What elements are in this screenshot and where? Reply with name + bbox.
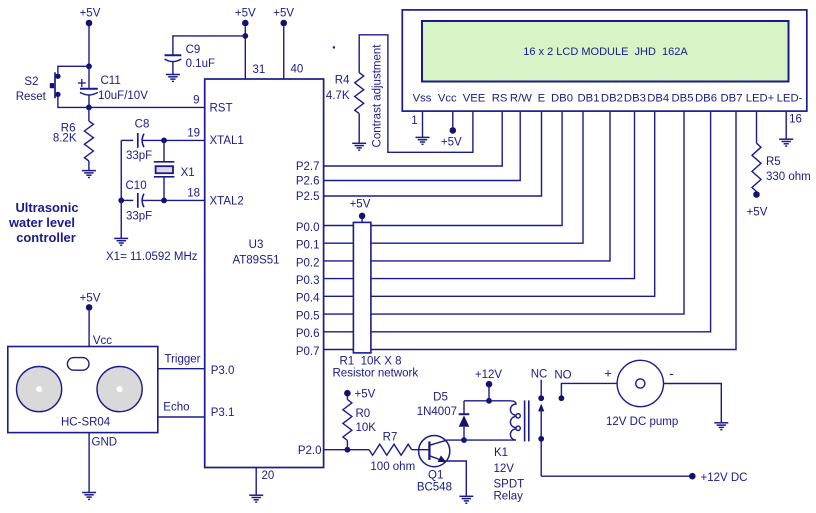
resistor R0: [343, 396, 376, 449]
svg-text:P2.7: P2.7: [296, 161, 320, 173]
svg-text:RST: RST: [210, 102, 233, 114]
svg-text:+5V: +5V: [80, 8, 101, 20]
svg-text:X1: X1: [181, 167, 195, 179]
svg-text:DB1: DB1: [578, 93, 600, 105]
node NO: [559, 395, 565, 401]
motor 12V DC pump: [604, 360, 678, 428]
ground (HC-SR04): [82, 493, 96, 500]
svg-text:DB0: DB0: [551, 93, 573, 105]
svg-text:18: 18: [187, 188, 200, 200]
svg-text:R/W: R/W: [510, 93, 532, 105]
svg-text:R4: R4: [335, 74, 350, 86]
ground (Q1 emitter): [459, 496, 473, 503]
wire DB0 to P0.0: [324, 111, 562, 225]
svg-text:+5V: +5V: [235, 8, 256, 20]
wire RS to P2.7: [324, 111, 503, 166]
wire XTAL1 rail: [142, 127, 205, 140]
svg-text:16 x 2 LCD MODULE JHD 162A: 16 x 2 LCD MODULE JHD 162A: [523, 46, 688, 58]
node collector junction: [461, 437, 467, 443]
power +5V (reset branch): [80, 8, 101, 67]
node +12V junction: [486, 398, 492, 404]
wire Vss: [422, 111, 424, 137]
wire LED-: [785, 111, 787, 139]
svg-text:33pF: 33pF: [126, 210, 152, 222]
relay contact arm: [538, 404, 544, 477]
wire Q1 emitter: [445, 461, 467, 496]
wire DB7 to P0.7: [324, 111, 736, 349]
svg-text:P2.0: P2.0: [298, 445, 322, 457]
relay core: [525, 400, 529, 441]
svg-text:U3: U3: [249, 239, 264, 251]
power +5V (pin 40): [273, 8, 294, 80]
mcu U3 AT89S51: [205, 79, 324, 468]
svg-text:R5: R5: [766, 156, 781, 168]
svg-text:E: E: [538, 93, 546, 105]
mcu pin 20 wire: [256, 468, 274, 495]
svg-text:1N4007: 1N4007: [417, 406, 457, 418]
svg-text:40: 40: [291, 64, 304, 76]
svg-text:R0: R0: [356, 408, 371, 420]
relay contact NO: [554, 369, 617, 395]
node XTAL1 junction: [161, 138, 167, 144]
wire R7 to Q1 base: [412, 449, 430, 451]
node C10 left junction: [118, 198, 124, 204]
wire to C9: [173, 36, 245, 55]
node R0 junction: [345, 447, 351, 453]
svg-text:+12V: +12V: [475, 369, 503, 381]
svg-text:P3.0: P3.0: [211, 365, 235, 377]
node C9 junction: [242, 33, 248, 39]
svg-text:+5V: +5V: [273, 8, 294, 20]
schematic title: [8, 200, 78, 245]
svg-text:0.1uF: 0.1uF: [186, 58, 215, 70]
svg-text:DB5: DB5: [672, 93, 694, 105]
svg-text:DB7: DB7: [721, 93, 743, 105]
svg-text:P0.0: P0.0: [296, 222, 320, 234]
svg-text:12V: 12V: [494, 463, 515, 475]
relay contact NC: [531, 369, 548, 396]
power +5V (pin 31): [235, 8, 256, 80]
svg-text:S2: S2: [24, 76, 38, 88]
svg-text:Vcc: Vcc: [438, 93, 457, 105]
power +12V (relay): [475, 369, 503, 401]
crystal frequency note: [106, 251, 198, 263]
pin 40 label: [291, 64, 304, 76]
node +12V DC terminal: [689, 472, 747, 484]
svg-text:controller: controller: [16, 230, 75, 245]
svg-text:Contrast adjustment: Contrast adjustment: [372, 44, 384, 148]
svg-text:C10: C10: [126, 180, 147, 192]
wire pump to ground: [664, 384, 722, 423]
relay K1 coil: [464, 401, 520, 440]
svg-text:R7: R7: [383, 432, 398, 444]
svg-text:Vss: Vss: [413, 93, 432, 105]
svg-text:Ultrasonic: Ultrasonic: [15, 200, 78, 215]
svg-text:P2.6: P2.6: [296, 175, 320, 187]
svg-text:X1= 11.0592 MHz: X1= 11.0592 MHz: [106, 251, 198, 263]
svg-text:R1 10K X 8: R1 10K X 8: [340, 356, 402, 368]
resistor R4: [326, 73, 364, 143]
relay K1 labels: [494, 447, 525, 503]
wire Trigger to P3.0: [158, 354, 205, 369]
lcd module JHD 162A: [402, 10, 807, 111]
svg-text:Echo: Echo: [163, 402, 189, 414]
svg-text:330 ohm: 330 ohm: [766, 171, 811, 183]
svg-text:P0.4: P0.4: [296, 293, 320, 305]
svg-text:BC548: BC548: [417, 481, 452, 493]
wire DB2 to P0.2: [324, 111, 610, 261]
lcd pin 16 label: [789, 114, 802, 126]
svg-text:P0.6: P0.6: [296, 328, 320, 340]
switch S2 (Reset): [16, 72, 61, 103]
resistor R5: [752, 143, 811, 193]
wire Q1 collector: [448, 439, 465, 441]
ground (R6): [82, 171, 96, 178]
wire crystal ground rail: [120, 140, 122, 238]
svg-text:P0.1: P0.1: [296, 240, 320, 252]
svg-text:LED-: LED-: [777, 93, 803, 105]
svg-text:+: +: [604, 366, 612, 381]
wire DB1 to P0.1: [324, 111, 583, 243]
svg-text:12V DC pump: 12V DC pump: [606, 416, 678, 428]
label Vcc: [93, 335, 112, 347]
resistor R7: [369, 432, 415, 474]
wire DB6 to P0.6: [324, 111, 711, 332]
svg-text:HC-SR04: HC-SR04: [61, 416, 111, 428]
ground (LED-): [779, 139, 793, 146]
svg-text:100 ohm: 100 ohm: [370, 461, 415, 473]
wire GND: [88, 433, 90, 493]
node reset-top junction: [86, 63, 92, 69]
svg-text:LED+: LED+: [746, 93, 775, 105]
svg-text:water level: water level: [8, 215, 75, 230]
svg-text:+5V: +5V: [350, 199, 371, 211]
capacitor C11: [78, 66, 148, 107]
svg-text:4.7K: 4.7K: [326, 90, 350, 102]
svg-text:XTAL2: XTAL2: [210, 195, 244, 207]
svg-text:D5: D5: [433, 391, 448, 403]
svg-text:P2.5: P2.5: [296, 191, 320, 203]
svg-text:1: 1: [411, 115, 417, 127]
ground (R4): [352, 143, 366, 150]
svg-text:Resistor network: Resistor network: [333, 367, 419, 379]
svg-text:C9: C9: [186, 44, 201, 56]
svg-text:DB2: DB2: [601, 93, 623, 105]
svg-text:Vcc: Vcc: [93, 335, 112, 347]
svg-text:20: 20: [262, 470, 275, 482]
power +5V (R5): [747, 191, 768, 218]
pin 31 label: [253, 64, 266, 76]
wire DB3 to P0.3: [324, 111, 635, 279]
wire R/W to P2.6: [324, 111, 521, 180]
wire XTAL2 rail: [142, 188, 205, 201]
svg-text:P0.2: P0.2: [296, 257, 320, 269]
wire common to +12V DC: [541, 475, 690, 477]
wire E to P2.5: [324, 111, 542, 196]
svg-text:+12V DC: +12V DC: [701, 472, 748, 484]
svg-text:16: 16: [789, 114, 802, 126]
svg-text:-: -: [669, 365, 674, 381]
lcd pin labels: [413, 93, 803, 105]
svg-text:VEE: VEE: [463, 93, 486, 105]
svg-text:RS: RS: [492, 93, 508, 105]
lcd pin 1 label: [411, 115, 417, 127]
wire P2.0: [324, 449, 369, 451]
power +5V (Vcc): [441, 127, 462, 148]
wire Echo to P3.1: [158, 402, 205, 417]
node XTAL2 junction: [161, 198, 167, 204]
svg-text:GND: GND: [92, 437, 118, 449]
transistor Q1 BC548: [417, 436, 452, 494]
wire Vcc: [452, 111, 454, 127]
crystal X1: [154, 140, 195, 200]
svg-text:DB6: DB6: [695, 93, 717, 105]
wire coil top: [464, 400, 510, 402]
stray mark: [333, 46, 335, 48]
svg-text:19: 19: [187, 127, 200, 139]
svg-text:P0.5: P0.5: [296, 311, 320, 323]
sensor HC-SR04: [8, 347, 158, 433]
svg-text:8.2K: 8.2K: [53, 132, 77, 144]
wire VEE to R4: [359, 35, 473, 153]
svg-text:P0.3: P0.3: [296, 275, 320, 287]
wire DB5 to P0.5: [324, 111, 684, 314]
resistor network R1: [333, 222, 419, 379]
contrast adjustment note: [372, 44, 384, 148]
svg-text:9: 9: [193, 94, 199, 106]
svg-text:C11: C11: [101, 75, 121, 87]
svg-text:Trigger: Trigger: [165, 354, 201, 366]
svg-text:DB4: DB4: [647, 93, 669, 105]
wire LED+: [756, 111, 758, 143]
svg-text:Reset: Reset: [16, 91, 47, 103]
svg-text:Relay: Relay: [494, 491, 524, 503]
svg-text:XTAL1: XTAL1: [210, 135, 244, 147]
wire DB4 to P0.4: [324, 111, 655, 296]
ground (C9): [166, 75, 180, 82]
svg-text:SPDT: SPDT: [494, 479, 525, 491]
power +5V (R1): [350, 199, 371, 223]
svg-text:P3.1: P3.1: [211, 407, 235, 419]
svg-text:+5V: +5V: [441, 136, 462, 148]
svg-text:K1: K1: [494, 447, 508, 459]
svg-text:C8: C8: [135, 119, 150, 131]
power +5V (HC-SR04): [80, 293, 101, 347]
node RST junction: [86, 105, 92, 111]
svg-text:31: 31: [253, 64, 266, 76]
svg-text:Q1: Q1: [428, 469, 443, 481]
ground (pump): [714, 423, 728, 430]
wire +5V to S2: [58, 66, 89, 73]
capacitor C8: [121, 119, 152, 163]
capacitor C9: [165, 44, 216, 74]
diode D5 1N4007: [417, 391, 470, 440]
svg-text:+5V: +5V: [355, 389, 376, 401]
capacitor C10: [121, 180, 152, 222]
svg-text:+5V: +5V: [747, 207, 768, 219]
wire RST to U3 pin 9: [89, 94, 205, 107]
svg-text:DB3: DB3: [624, 93, 646, 105]
node contact common: [538, 436, 544, 442]
svg-text:10K: 10K: [356, 422, 377, 434]
ground (pin 20): [249, 495, 263, 502]
svg-text:10uF/10V: 10uF/10V: [98, 90, 148, 102]
svg-text:NC: NC: [531, 369, 548, 381]
ground (crystal): [114, 238, 128, 245]
svg-text:33pF: 33pF: [126, 150, 152, 162]
svg-text:+5V: +5V: [80, 293, 101, 305]
svg-text:NO: NO: [554, 369, 571, 381]
ground (Vss): [416, 137, 430, 144]
svg-text:P0.7: P0.7: [296, 346, 320, 358]
svg-text:AT89S51: AT89S51: [232, 255, 279, 267]
node NC: [538, 395, 544, 401]
power +5V (R0): [344, 389, 376, 401]
resistor R6: [53, 107, 94, 170]
wire S2 to RST rail: [58, 94, 86, 107]
label GND: [92, 437, 118, 449]
